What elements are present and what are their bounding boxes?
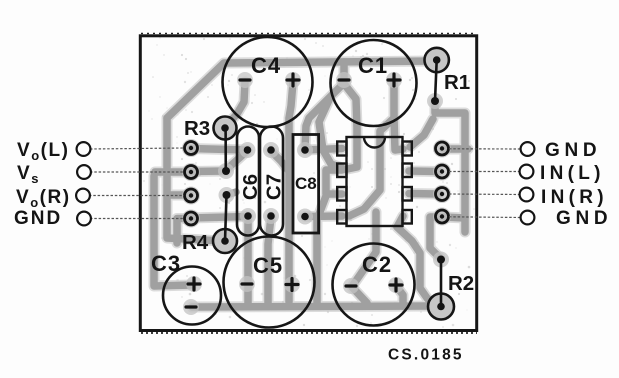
svg-text:GND: GND: [545, 140, 601, 161]
wire C7 bottom vertical: [268, 217, 271, 303]
wire C1- stub up: [340, 62, 348, 80]
resistor R4: [213, 229, 237, 253]
wire C6 bottom vertical: [244, 217, 252, 303]
terminal circles right: [520, 142, 535, 224]
resistor R3: [214, 117, 237, 140]
wire vertical into C5: [313, 218, 321, 303]
wire C2- to bottom bus: [352, 287, 368, 306]
node pads left column: [185, 142, 198, 226]
wire C8 bottom to pin4: [305, 212, 342, 220]
pin 1: [337, 142, 346, 156]
pin 7: [403, 164, 412, 178]
capacitor C1: [331, 40, 417, 126]
wire C1+ branch to pin8: [394, 118, 403, 150]
wire C4+ down past C8: [289, 82, 293, 302]
resistor R1: [425, 48, 449, 72]
wire pin8 diagonal: [410, 119, 433, 147]
pin 5: [403, 210, 412, 224]
pin 6: [403, 187, 412, 201]
wire U to junction: [318, 196, 326, 217]
svg-text:GND: GND: [556, 208, 612, 229]
wire top bus: R1 pad to diagonal to left vertical to R4 pad: [167, 61, 433, 241]
capacitor C2: [333, 244, 415, 326]
wire pin7 to pad3 right: [409, 190, 439, 198]
pin 4: [337, 210, 346, 224]
pin 3: [337, 187, 346, 201]
svg-text:C8: C8: [295, 174, 317, 193]
wire pad2 to R3 dot: [191, 167, 226, 175]
op-amp U1 (8-pin DIP): [337, 137, 412, 226]
svg-text:C7: C7: [263, 174, 286, 200]
wire C1+ to pin4: [349, 82, 394, 216]
wire pad1 right stub: [443, 145, 468, 153]
wire C2+ elbow: [397, 287, 403, 306]
wire pad4 to C6 bottom: [191, 217, 247, 219]
wire bottom bus C3- to R2 pad: [192, 306, 429, 307]
terminal circles left: [76, 142, 91, 225]
pin 8: [403, 142, 412, 156]
svg-text:C5: C5: [253, 253, 283, 278]
svg-text:C2: C2: [362, 252, 392, 277]
wire R4 dot stub: [227, 192, 236, 195]
svg-text:C3: C3: [151, 251, 181, 276]
capacitor C3: [163, 267, 221, 325]
scan speckle: [143, 37, 475, 328]
pin 2: [337, 164, 346, 178]
board outline: [140, 36, 476, 331]
wire pad4 right stub: [443, 217, 465, 218]
wire pad4 left elbow: [177, 219, 191, 244]
wire pin5 to R2 pad: [397, 216, 432, 304]
wire thin leads left: [89, 148, 184, 219]
wire pin6 to pad2 right: [409, 167, 439, 175]
wire C1- inner to pin2 via x357: [345, 85, 357, 170]
capacitor C8: [293, 135, 319, 234]
svg-text:IN(R): IN(R): [541, 187, 608, 208]
capacitor C4: [223, 37, 313, 127]
wire R3 dot to C6 top: [226, 151, 247, 170]
wire branch to C2-: [353, 212, 376, 285]
svg-text:R1: R1: [444, 71, 470, 94]
pad halos: [182, 72, 451, 315]
svg-text:R4: R4: [182, 231, 209, 254]
capacitor C7: [260, 127, 283, 236]
svg-text:IN(L): IN(L): [540, 163, 605, 184]
wire C4- to R3 pad: [227, 82, 245, 125]
wire R1 dot net right vertical: [435, 101, 465, 232]
svg-text:GND: GND: [14, 208, 62, 229]
wire thin leads right: [449, 149, 521, 218]
wire C8 top to pin1: [305, 149, 342, 151]
svg-text:Vo(R): Vo(R): [16, 187, 71, 210]
wire pad4 to R2 dot: [430, 217, 441, 258]
svg-text:C4: C4: [251, 53, 281, 78]
svg-text:CS.0185: CS.0185: [388, 347, 464, 364]
svg-text:C1: C1: [358, 53, 388, 78]
wire branch to pad3 left: [167, 191, 190, 199]
svg-text:R3: R3: [184, 117, 210, 140]
capacitor C6: [237, 127, 259, 236]
resistor R2: [428, 294, 454, 320]
svg-text:C6: C6: [239, 174, 262, 200]
svg-text:R2: R2: [448, 272, 474, 295]
wire C1- curve to pin2: [319, 98, 342, 168]
wire pad1 to C6 top: [191, 149, 247, 151]
wire pin2-U-pin3: [326, 170, 342, 194]
wire C1- to C8 top: [305, 84, 343, 148]
wire pad2 left vertical to C3+: [154, 172, 192, 286]
wire C7 top diagonal: [271, 151, 288, 170]
svg-text:Vo(L): Vo(L): [17, 140, 69, 163]
wires: copper traces: [154, 61, 468, 307]
capacitor C5: [224, 237, 315, 328]
node pads right column: [436, 142, 449, 223]
